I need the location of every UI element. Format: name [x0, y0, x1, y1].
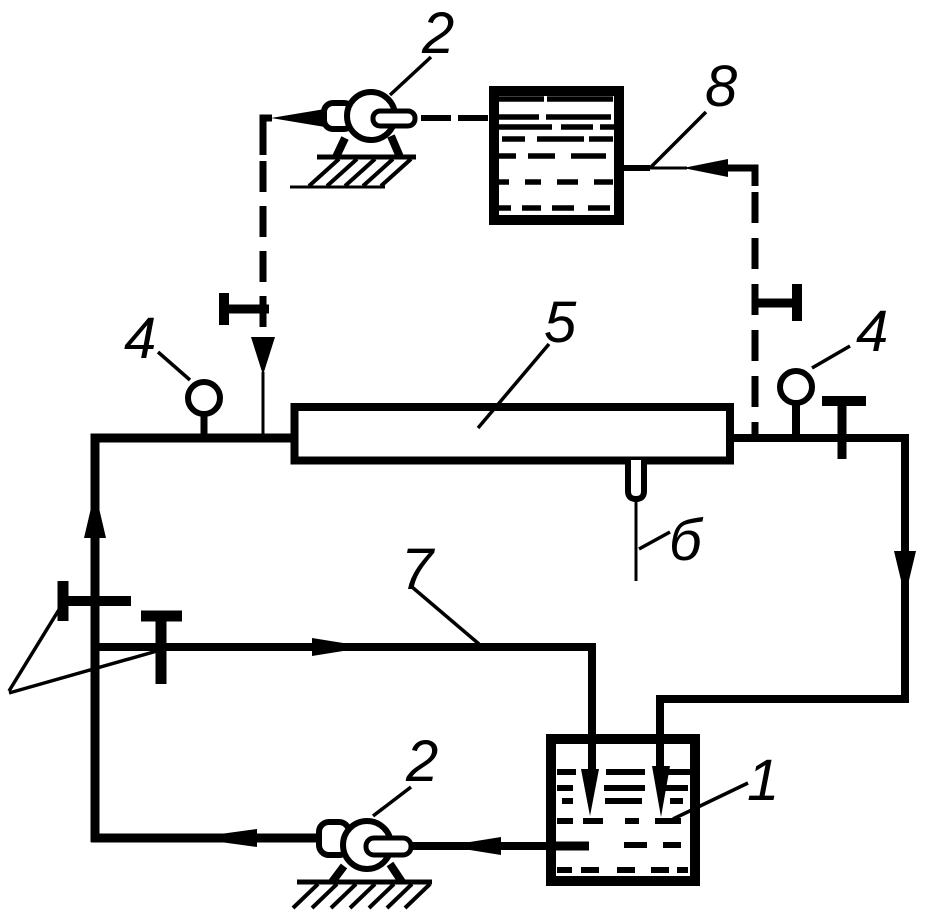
svg-text:1: 1 — [747, 748, 779, 813]
svg-text:4: 4 — [124, 306, 156, 371]
svg-text:8: 8 — [705, 54, 737, 119]
svg-text:5: 5 — [544, 290, 577, 355]
svg-text:2: 2 — [405, 729, 438, 794]
svg-text:б: б — [669, 508, 704, 573]
svg-text:4: 4 — [856, 299, 888, 364]
svg-text:7: 7 — [401, 537, 436, 602]
svg-text:2: 2 — [421, 1, 454, 66]
